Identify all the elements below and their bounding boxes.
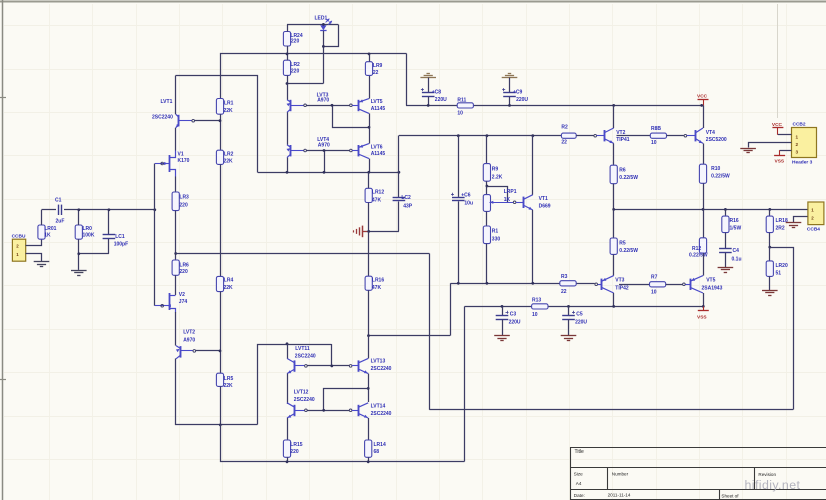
svg-text:220U: 220U <box>516 97 528 103</box>
node feedback takeoff <box>768 246 771 249</box>
transistor LVT11 <box>287 346 316 374</box>
svg-text:C4: C4 <box>733 248 740 254</box>
svg-text:220U: 220U <box>435 97 447 103</box>
svg-text:2011-11-14: 2011-11-14 <box>608 492 631 497</box>
wire VAS input rail <box>399 136 562 173</box>
wire CCB2 pin1 <box>778 134 792 136</box>
svg-text:22: 22 <box>373 70 379 76</box>
svg-text:+C6: +C6 <box>461 193 471 199</box>
wire R9 to pot <box>486 181 488 194</box>
ground below C3 <box>494 336 510 341</box>
svg-text:LVT12: LVT12 <box>294 390 309 396</box>
wire R12 to VT5 emitter <box>703 253 705 275</box>
wire VT2 collector to rail <box>613 105 615 128</box>
svg-text:+C8: +C8 <box>432 90 442 96</box>
resistor LR2 22K <box>216 150 233 164</box>
node base tie junctions <box>323 149 326 152</box>
wire ground node 231 <box>363 231 399 233</box>
node 335 junction <box>367 334 370 337</box>
wire LC1 bottom to LR0 ground node <box>79 253 109 255</box>
resistor R7 <box>650 274 666 295</box>
resistor R5 <box>610 209 638 254</box>
svg-text:LVT14: LVT14 <box>371 403 386 409</box>
wire V1 source to LR3 <box>175 177 177 193</box>
wire base rail upper <box>306 105 349 107</box>
transistor LVT12 <box>287 390 315 418</box>
svg-text:LR4: LR4 <box>224 278 234 284</box>
node feedback tap <box>174 252 177 255</box>
svg-text:220U: 220U <box>509 320 521 326</box>
ground below C5 <box>561 336 577 341</box>
power VCC at VT4 <box>697 93 709 105</box>
svg-text:220: 220 <box>290 449 299 455</box>
wire node N1 <box>258 172 399 174</box>
svg-text:LR0: LR0 <box>83 226 93 232</box>
svg-text:Title: Title <box>575 449 584 455</box>
power VCC at CCB2 <box>772 122 784 135</box>
svg-text:220: 220 <box>291 69 300 75</box>
wire LVT13 emitter to node 388 <box>368 374 370 402</box>
resistor R10 <box>699 164 730 209</box>
wire LR2 bottom node <box>287 83 323 85</box>
wire node 335 horizontal <box>369 335 451 337</box>
resistor LR12 <box>365 172 384 231</box>
resistor R3 <box>560 274 576 295</box>
svg-text:2SC2240: 2SC2240 <box>371 411 392 417</box>
wire LR16 column <box>368 231 370 276</box>
svg-text:V1: V1 <box>178 152 184 158</box>
resistor R8B <box>650 126 666 146</box>
wire LR6 to V2 <box>175 275 177 295</box>
wire LVT6 collector to N1 <box>369 159 371 173</box>
wire pot top to base loop <box>487 187 508 203</box>
svg-text:LVT11: LVT11 <box>295 346 310 352</box>
wire LR4 to LR5 <box>220 292 222 374</box>
wire feedback vertical <box>429 254 431 410</box>
resistor LR01 <box>38 210 57 239</box>
capacitor C1 <box>55 197 64 224</box>
svg-text:51: 51 <box>776 271 782 277</box>
wire VT5 collector down <box>703 293 705 306</box>
svg-text:220: 220 <box>179 202 188 208</box>
svg-text:R16: R16 <box>730 218 739 224</box>
svg-text:Size: Size <box>574 472 583 477</box>
wire negative rail <box>465 306 704 308</box>
connector CCB2 <box>792 122 817 166</box>
title block <box>570 447 826 500</box>
wire VT3 collector down <box>613 293 615 306</box>
svg-text:LR12: LR12 <box>372 190 384 196</box>
node base rail 410 junction <box>322 409 325 412</box>
node input junctions <box>77 208 156 255</box>
svg-text:2SC2240: 2SC2240 <box>371 366 392 372</box>
pin circle LVT4 base <box>304 149 307 152</box>
svg-text:2uF: 2uF <box>56 219 65 225</box>
wire V2 source to LVT2 <box>175 312 177 346</box>
resistor LR1 <box>216 99 233 115</box>
svg-text:2SC2240: 2SC2240 <box>152 114 173 120</box>
svg-text:V2: V2 <box>179 292 185 298</box>
wire LVT2 collector down <box>176 359 258 425</box>
resistor LR9 <box>365 54 382 76</box>
svg-text:VT5: VT5 <box>706 278 715 284</box>
svg-text:R5: R5 <box>619 241 626 247</box>
svg-text:1K: 1K <box>44 233 51 239</box>
node ground junction <box>367 230 370 233</box>
transistor VT5 <box>685 276 722 293</box>
capacitor LC1 <box>103 210 129 254</box>
wire LR2 down to LR4 <box>220 164 222 276</box>
power VSS at CCB2 <box>774 150 785 164</box>
transistor LVT3 <box>287 92 330 112</box>
svg-text:3: 3 <box>796 150 799 155</box>
node lower rail junctions <box>457 282 534 285</box>
wire tail rail <box>221 425 465 462</box>
wire VT4 emitter to R10 <box>703 143 705 164</box>
svg-text:LVT6: LVT6 <box>371 144 383 150</box>
node bias taps <box>219 119 222 426</box>
connector CCBU <box>12 233 26 261</box>
svg-text:A970: A970 <box>318 142 330 148</box>
svg-text:hifidiy.net: hifidiy.net <box>745 478 801 492</box>
svg-text:LVT5: LVT5 <box>371 99 383 105</box>
wire VT3 to R7 <box>619 284 650 286</box>
svg-text:2SC2240: 2SC2240 <box>294 397 315 403</box>
jfet V2 <box>155 292 188 312</box>
ground above C8 <box>420 74 436 78</box>
svg-text:R2: R2 <box>561 125 568 131</box>
wire LVT1 collector up <box>175 76 177 115</box>
svg-text:LR14: LR14 <box>374 442 386 448</box>
svg-text:2R2: 2R2 <box>776 226 785 232</box>
svg-text:68: 68 <box>374 449 380 455</box>
capacitor C4 <box>719 233 741 268</box>
wire R8B to VT4 base <box>667 135 684 137</box>
pin circle LVT2 base <box>193 350 196 353</box>
wire LVT11 collector up <box>287 344 289 359</box>
wire VT2 to R8B <box>617 135 651 137</box>
wire bases tie x=331.8 <box>331 344 333 366</box>
svg-text:CCB4: CCB4 <box>807 226 820 232</box>
svg-text:+C9: +C9 <box>513 90 523 96</box>
wire LVT11 emitter to LVT12 <box>287 374 289 404</box>
resistor LR5 <box>216 373 233 389</box>
jfet V1 <box>155 151 190 177</box>
resistor R16 <box>722 209 742 232</box>
wire VT4 collector <box>703 105 705 128</box>
pin circle LVT5 base <box>350 104 353 107</box>
transistor VT1 <box>516 195 551 210</box>
pin circle LVT1 base <box>192 119 195 122</box>
resistor LR0 <box>75 210 95 270</box>
resistor LR2 220 <box>283 54 300 84</box>
wire LVT5 emitter to LR9 <box>369 75 371 98</box>
wire R5 to VT3 emitter <box>613 254 615 275</box>
svg-text:TIP41: TIP41 <box>616 137 630 143</box>
transistor VT4 <box>687 128 727 143</box>
svg-text:220: 220 <box>179 269 188 275</box>
svg-text:LR16: LR16 <box>372 278 384 284</box>
resistor LR14 <box>365 440 386 462</box>
svg-text:2: 2 <box>796 142 799 147</box>
svg-text:C5: C5 <box>576 312 583 318</box>
pin circle VT1 base <box>513 201 516 204</box>
svg-text:220U: 220U <box>575 320 587 326</box>
wire CCBU pin2 to LR01 <box>26 240 42 246</box>
svg-text:100pF: 100pF <box>114 242 128 248</box>
wire VAS top <box>406 54 408 106</box>
svg-text:A1145: A1145 <box>371 151 386 157</box>
svg-text:LR2: LR2 <box>290 62 300 68</box>
wire CCBU pin1 to ground <box>26 254 42 262</box>
svg-text:Sheet of: Sheet of <box>721 493 739 498</box>
resistor LR18 <box>766 209 788 247</box>
svg-text:R11: R11 <box>457 97 466 103</box>
svg-text:R7: R7 <box>651 274 658 280</box>
svg-text:22K: 22K <box>224 108 234 114</box>
svg-text:VCC: VCC <box>697 93 708 99</box>
svg-text:LR9: LR9 <box>373 63 383 69</box>
svg-text:C3: C3 <box>510 312 517 318</box>
wire LVT3 emitter up <box>287 84 289 100</box>
svg-text:LR20: LR20 <box>776 263 788 269</box>
pin circle VT3 base <box>595 283 598 286</box>
svg-text:LVT1: LVT1 <box>161 99 173 105</box>
capacitor LC2 <box>393 172 413 231</box>
transistor LVT13 <box>352 358 392 373</box>
svg-text:330: 330 <box>492 237 501 243</box>
transistor LVT6 <box>352 144 385 159</box>
svg-text:10u: 10u <box>464 201 473 207</box>
wire LVT13 collector up <box>368 336 370 359</box>
resistor R11 <box>457 97 473 116</box>
svg-text:0.22/5W: 0.22/5W <box>711 174 730 180</box>
wire LR1 to LR2 <box>220 114 222 150</box>
resistor LR3 <box>172 192 189 211</box>
svg-text:22K: 22K <box>224 383 234 389</box>
wire feedback from output <box>770 248 794 410</box>
node tail junctions <box>286 460 370 463</box>
svg-text:LVT13: LVT13 <box>371 358 386 364</box>
wire LVT4 bases tie to N1 <box>324 151 326 173</box>
svg-text:LR15: LR15 <box>290 442 302 448</box>
svg-text:Revision: Revision <box>758 472 776 477</box>
wire LVT11 top <box>258 345 332 425</box>
node bus junctions <box>286 53 371 85</box>
node negative rail junctions <box>501 305 705 308</box>
ground at CCBU pin1 <box>34 262 50 267</box>
pin circle LVT14 base <box>349 409 352 412</box>
svg-text:2.2K: 2.2K <box>492 175 503 181</box>
node base rail junction <box>330 365 333 368</box>
svg-text:47K: 47K <box>372 285 382 291</box>
wire LED loop <box>324 25 339 47</box>
node pot top tap <box>486 185 489 188</box>
wire CCB2 pin3 <box>780 150 792 152</box>
svg-text:A970: A970 <box>317 98 329 104</box>
wire feedback horizontal <box>176 253 430 255</box>
svg-text:A1145: A1145 <box>371 106 386 112</box>
wire bases tie lower <box>324 389 369 411</box>
svg-text:LR5: LR5 <box>224 376 234 382</box>
node N1 junctions <box>286 171 401 174</box>
svg-text:R1: R1 <box>492 229 499 235</box>
svg-text:LR3: LR3 <box>179 194 189 200</box>
wire CCB2 pin2 to ground <box>749 143 792 148</box>
resistor LR6 <box>172 260 189 275</box>
svg-text:D669: D669 <box>539 204 551 210</box>
svg-text:LR1: LR1 <box>224 100 234 106</box>
wire VT1 collector up <box>532 136 534 195</box>
resistor LR16 <box>365 276 384 335</box>
wire CCB4 pin2 to ground <box>794 217 808 223</box>
svg-text:43P: 43P <box>403 204 413 210</box>
led LED1 <box>287 15 338 30</box>
resistor R13 <box>532 298 548 318</box>
wire LVT5 collector to LVT6 emitter <box>369 113 371 143</box>
svg-text:0.22/5W: 0.22/5W <box>619 248 638 254</box>
svg-text:LC2: LC2 <box>401 195 411 201</box>
transistor VT2 <box>597 128 630 143</box>
svg-text:2SC2240: 2SC2240 <box>295 353 316 359</box>
node VAS rail junctions <box>457 134 534 137</box>
resistor R2 <box>561 125 576 146</box>
wire VT2 emitter to R6 <box>613 143 615 165</box>
ground at CCB4 <box>786 223 802 228</box>
wire input node <box>42 209 155 211</box>
svg-text:A970: A970 <box>183 338 195 344</box>
wire positive filtered rail <box>406 105 702 107</box>
wire base rail lower <box>306 150 349 152</box>
node output junctions <box>612 208 771 211</box>
wire pot bottom to R1 <box>486 211 488 226</box>
svg-text:2SC5200: 2SC5200 <box>706 137 727 143</box>
svg-text:22: 22 <box>561 289 567 295</box>
svg-text:Date:: Date: <box>574 493 585 498</box>
svg-text:R8B: R8B <box>651 126 661 132</box>
pin circle LVT12 base <box>305 409 308 412</box>
connector CCB4 <box>807 202 824 232</box>
wire R2 to VT2 base <box>576 135 594 137</box>
wire LVT4 collector to N1 <box>287 158 289 173</box>
svg-text:CCBU: CCBU <box>12 233 26 239</box>
svg-text:C1: C1 <box>55 197 62 203</box>
resistor R9 <box>483 136 502 182</box>
pin circle VT4 base <box>684 134 687 137</box>
wire gate bus vertical <box>154 164 156 306</box>
transistor LVT2 <box>176 330 195 359</box>
resistor R1 <box>483 226 500 283</box>
node 388 junction <box>367 387 370 390</box>
wire LVT2 base to LR4/LR5 node <box>196 350 220 352</box>
svg-text:VT1: VT1 <box>539 196 548 202</box>
wire top bus <box>221 54 407 99</box>
resistor R6 <box>610 165 638 209</box>
ground at CCB2 <box>740 149 756 153</box>
wire rail to R3 <box>576 283 595 285</box>
resistor LR20 <box>766 247 788 290</box>
svg-text:10: 10 <box>457 111 463 117</box>
svg-text:LVT2: LVT2 <box>183 330 195 336</box>
wire base rail 366 <box>307 365 349 367</box>
svg-text:VSS: VSS <box>697 314 707 320</box>
svg-text:0.1u: 0.1u <box>732 256 742 262</box>
capacitor C5 <box>562 306 587 335</box>
svg-text:R10: R10 <box>711 166 720 172</box>
potentiometer LRP1 <box>483 189 516 211</box>
svg-text:LR6: LR6 <box>179 263 189 269</box>
pin circle VT5 base <box>683 283 686 286</box>
pin circle LVT13 base <box>349 365 352 368</box>
svg-text:10: 10 <box>651 140 657 146</box>
svg-text:R13: R13 <box>532 298 541 304</box>
svg-text:10: 10 <box>651 289 657 295</box>
wire LR5 down to tail rail <box>220 386 222 425</box>
power VSS at output stage <box>697 306 709 320</box>
capacitor C3 <box>496 306 521 335</box>
svg-text:J74: J74 <box>179 299 188 305</box>
pin circle VT2 base <box>594 134 597 137</box>
watermark <box>745 478 801 492</box>
svg-text:CCB2: CCB2 <box>793 122 806 128</box>
ground above C9 <box>502 74 518 78</box>
svg-text:TIP42: TIP42 <box>615 285 629 291</box>
wire LVT1 base to LR1/LR2 node <box>195 120 221 122</box>
transistor LVT4 <box>287 137 330 157</box>
wire LED cathode down <box>323 31 325 84</box>
resistor LR24 <box>283 24 302 54</box>
svg-text:22: 22 <box>561 140 567 146</box>
transistor VT3 <box>598 276 629 293</box>
svg-text:LR01: LR01 <box>44 226 56 232</box>
svg-text:K170: K170 <box>178 158 190 164</box>
ground at LR0 <box>71 271 87 276</box>
resistor LR15 <box>283 440 302 462</box>
svg-text:10: 10 <box>532 312 538 318</box>
ground below LR20 <box>762 291 778 296</box>
svg-text:47K: 47K <box>372 197 382 203</box>
wire R7 to VT5 base <box>666 284 683 286</box>
svg-text:0.22/5W: 0.22/5W <box>619 175 638 181</box>
pin circle V1 gate <box>161 162 164 165</box>
pin circle LVT6 base <box>350 149 353 152</box>
svg-text:A4: A4 <box>576 481 582 486</box>
capacitor C6 <box>451 136 473 284</box>
wire negative feed down <box>464 307 466 462</box>
wire output rail <box>614 209 808 211</box>
wire LVT14 collector to LR14 <box>368 418 370 440</box>
svg-text:1: 1 <box>796 135 799 140</box>
svg-text:22K: 22K <box>224 158 234 164</box>
svg-text:2SA1943: 2SA1943 <box>702 285 723 291</box>
node rail junctions <box>427 104 703 107</box>
svg-text:220: 220 <box>291 38 300 44</box>
svg-text:LED1: LED1 <box>315 15 328 21</box>
wire LVT3 collector to LVT4 <box>287 112 289 144</box>
svg-text:VSS: VSS <box>775 159 785 165</box>
wire lower VAS rail <box>451 283 560 335</box>
wire VT1 emitter down <box>532 210 534 283</box>
svg-text:LC1: LC1 <box>115 234 125 240</box>
svg-text:1/5W: 1/5W <box>730 226 742 232</box>
wire base rail 410 <box>307 410 349 412</box>
pin circle LVT11 base <box>305 365 308 368</box>
svg-text:LRP1: LRP1 <box>504 189 517 195</box>
svg-text:VT3: VT3 <box>615 278 624 284</box>
svg-text:Number: Number <box>612 472 629 477</box>
svg-text:R9: R9 <box>492 167 499 173</box>
transistor LVT1 <box>152 99 192 128</box>
